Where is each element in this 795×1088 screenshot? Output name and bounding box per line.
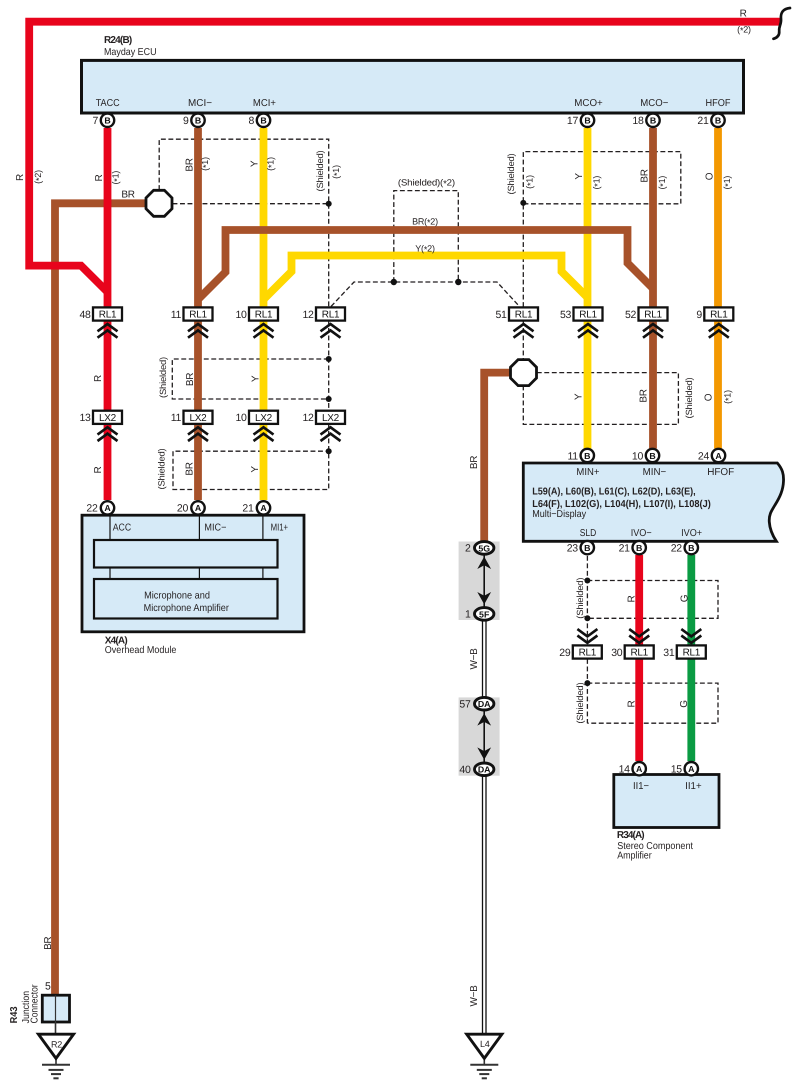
svg-text:(*1): (*1) — [200, 157, 211, 171]
svg-text:MCO+: MCO+ — [574, 98, 603, 109]
svg-text:24: 24 — [698, 450, 710, 462]
ECU pin 17 B — [581, 114, 594, 127]
wire BR from octagon J2 to 5G — [484, 373, 511, 542]
svg-text:Y: Y — [250, 160, 261, 167]
svg-text:W−B: W−B — [469, 985, 480, 1007]
chevron below RL1 12 — [321, 324, 341, 338]
svg-text:(Shielded): (Shielded) — [575, 682, 585, 723]
connector band 57DA-40DA — [459, 697, 500, 775]
dashed bus to RL1 connectors — [331, 282, 520, 307]
arrow down into 5F — [477, 592, 491, 604]
connector RL1 pin 31 — [677, 645, 706, 658]
svg-text:G: G — [679, 594, 690, 602]
shield dashed box left-lower (Shielded) — [173, 424, 329, 490]
svg-text:5G: 5G — [478, 543, 490, 553]
svg-text:10: 10 — [236, 412, 248, 424]
svg-text:40: 40 — [459, 764, 471, 776]
svg-text:22: 22 — [671, 542, 683, 554]
chevron below RL1 51 — [514, 324, 534, 338]
svg-text:5F: 5F — [479, 609, 490, 619]
connector RL1 pin 12 — [316, 307, 345, 320]
R34(A) Stereo Component Amplifier box — [614, 775, 719, 828]
svg-text:53: 53 — [560, 309, 572, 321]
arrow up into 57DA — [477, 713, 491, 725]
svg-text:(Shielded): (Shielded) — [157, 448, 167, 489]
svg-text:(Shielded): (Shielded) — [315, 150, 325, 191]
shield junction dot — [326, 448, 332, 454]
wire BR (*1) MCI- pin9 to pin20 MIC- — [194, 128, 202, 500]
svg-text:8: 8 — [248, 115, 254, 127]
svg-text:IVO−: IVO− — [631, 528, 652, 539]
svg-text:BR: BR — [469, 456, 480, 469]
X4 pin 22 A — [101, 501, 114, 514]
svg-text:R: R — [627, 595, 638, 602]
shield junction dot — [455, 279, 461, 285]
svg-text:MIN−: MIN− — [643, 467, 667, 478]
svg-text:R: R — [740, 9, 747, 20]
R43 internal wire — [55, 995, 57, 1022]
svg-text:52: 52 — [625, 309, 637, 321]
link R43 to ground R2 — [55, 1022, 57, 1035]
shield junction dot — [584, 680, 590, 686]
chevron below RL1 52 — [643, 324, 663, 338]
shield junction dot — [391, 279, 397, 285]
svg-text:Y: Y — [250, 375, 261, 382]
svg-text:(*1): (*1) — [266, 157, 277, 171]
svg-text:5: 5 — [45, 981, 51, 993]
chevron below RL1 53 — [578, 324, 598, 338]
svg-text:(*1): (*1) — [592, 176, 603, 190]
connector RL1 pin 52 — [639, 307, 668, 320]
connector RL1 pin 51 — [509, 307, 538, 320]
svg-text:Amplifier: Amplifier — [617, 850, 652, 861]
chevron below LX2 12 — [321, 427, 341, 441]
X4 inner block upper — [94, 540, 278, 568]
svg-text:DA: DA — [478, 699, 491, 709]
chevron above RL1 31 — [681, 629, 701, 643]
svg-text:Microphone Amplifier: Microphone Amplifier — [144, 603, 230, 614]
svg-text:Y(*2): Y(*2) — [415, 243, 435, 254]
connector RL1 pin 48 — [93, 307, 122, 320]
dashed link RL1 12 to LX2 12 with shield box — [172, 321, 328, 411]
svg-text:10: 10 — [632, 450, 644, 462]
svg-text:(Shielded): (Shielded) — [575, 577, 585, 618]
chevron below RL1 9 — [709, 324, 729, 338]
svg-text:(Shielded): (Shielded) — [506, 153, 516, 194]
chevron above RL1 30 — [629, 629, 649, 643]
svg-text:(Shielded): (Shielded) — [684, 377, 694, 418]
svg-text:O: O — [705, 172, 716, 180]
connector oval 40 DA — [475, 763, 494, 776]
wire Y(*2) branch — [265, 256, 588, 299]
connector RL1 pin 10 — [249, 307, 278, 320]
svg-text:R: R — [93, 375, 104, 382]
svg-text:BR: BR — [640, 169, 651, 182]
svg-text:Overhead Module: Overhead Module — [105, 645, 177, 656]
connector band 5G-5F — [459, 542, 500, 621]
svg-text:51: 51 — [496, 309, 508, 321]
svg-text:R: R — [93, 466, 104, 473]
X4 internal wire MI1+ — [262, 517, 264, 581]
chevron above RL1 29 — [577, 629, 597, 643]
arrow down into 40DA — [477, 747, 491, 759]
chevron below LX2 10 — [254, 427, 274, 441]
svg-text:14: 14 — [619, 764, 631, 776]
Multi-Display pin 21 B — [633, 541, 646, 554]
Multi-Display box — [523, 463, 783, 541]
chevron below RL1 11 — [188, 324, 208, 338]
svg-text:11: 11 — [171, 412, 182, 424]
shield dashed box right SLD upper (Shielded) — [587, 581, 718, 619]
svg-text:BR: BR — [639, 389, 650, 402]
svg-text:15: 15 — [671, 764, 683, 776]
shield junction dot — [326, 356, 332, 362]
svg-text:BR(*2): BR(*2) — [412, 217, 438, 228]
X4 pin 21 A — [257, 501, 270, 514]
svg-text:Y: Y — [250, 466, 261, 473]
svg-text:1: 1 — [465, 609, 471, 621]
shield dashed box right SLD lower (Shielded) — [587, 683, 718, 723]
connector RL1 pin 9 — [704, 307, 733, 320]
svg-text:12: 12 — [303, 309, 315, 321]
svg-text:L4: L4 — [480, 1039, 490, 1049]
R43 junction connector box — [42, 995, 69, 1022]
dashed SLD line below RL1 29 — [586, 659, 588, 723]
svg-text:R: R — [15, 174, 26, 181]
shield dashed box top-left (Shielded)(*1) — [159, 139, 329, 307]
connector LX2 pin 12 — [316, 411, 345, 424]
svg-text:23: 23 — [567, 542, 579, 554]
connector oval 5G — [475, 542, 494, 555]
svg-text:20: 20 — [177, 503, 189, 515]
shield dashed box center (Shielded)(*2) — [394, 191, 459, 282]
connector RL1 pin 11 — [184, 307, 213, 320]
connector RL1 pin 53 — [574, 307, 603, 320]
svg-text:31: 31 — [663, 647, 675, 659]
svg-text:G: G — [679, 700, 690, 708]
svg-text:MCI+: MCI+ — [253, 98, 276, 109]
svg-text:Y: Y — [574, 173, 585, 180]
svg-text:(*1): (*1) — [331, 165, 342, 179]
wire R (*2) main feed — [29, 22, 780, 292]
wire Y MCO+ pin17 to MIN+ pin11 — [584, 128, 592, 449]
X4(A) Overhead Module box — [82, 515, 304, 632]
svg-text:30: 30 — [611, 647, 623, 659]
connector RL1 pin 29 — [573, 645, 602, 658]
ECU pin 9 B — [191, 114, 204, 127]
shield junction dot — [584, 578, 590, 584]
svg-text:(*2): (*2) — [737, 25, 751, 36]
svg-text:Microphone and: Microphone and — [144, 590, 210, 601]
svg-text:12: 12 — [303, 412, 315, 424]
chevron below LX2 11 — [188, 427, 208, 441]
shield junction dot — [326, 396, 332, 402]
chevron below RL1 48 — [98, 324, 118, 338]
svg-text:Connector: Connector — [30, 984, 41, 1024]
connector oval 5F — [475, 608, 494, 621]
connector LX2 pin 10 — [249, 411, 278, 424]
dashed SLD line from pin 23 — [586, 556, 588, 645]
amplifier pin 15 A — [685, 762, 698, 775]
svg-text:22: 22 — [86, 503, 98, 515]
Multi-Display pin 10 B — [646, 449, 659, 462]
svg-text:DA: DA — [478, 765, 491, 775]
svg-text:HFOF: HFOF — [706, 98, 731, 109]
wire O HFOF pin21 to HFOF pin24 — [714, 128, 722, 449]
chevron below RL1 10 — [254, 324, 274, 338]
svg-text:II1−: II1− — [633, 781, 649, 792]
connector LX2 pin 11 — [184, 411, 213, 424]
svg-text:L59(A), L60(B), L61(C), L62(D): L59(A), L60(B), L61(C), L62(D), L63(E), — [532, 487, 696, 498]
X4 internal wire ACC — [109, 517, 111, 581]
svg-text:13: 13 — [80, 412, 92, 424]
svg-text:2: 2 — [465, 543, 471, 555]
wire W-B thin link 40DA to ground L4 — [483, 776, 487, 1035]
svg-text:R24(B): R24(B) — [104, 35, 132, 46]
svg-text:MCI−: MCI− — [188, 98, 212, 109]
wire G IVO+ pin22 to pin15 — [687, 555, 695, 761]
svg-text:Y: Y — [574, 393, 585, 400]
octagon junction J2 — [511, 360, 537, 386]
svg-text:(Shielded): (Shielded) — [158, 357, 168, 398]
ECU pin 18 B — [646, 114, 659, 127]
shield junction dot — [520, 200, 526, 206]
svg-text:(*1): (*1) — [723, 390, 734, 404]
svg-text:21: 21 — [619, 542, 631, 554]
Multi-Display pin 22 B — [685, 541, 698, 554]
svg-text:Multi−Display: Multi−Display — [532, 509, 586, 520]
svg-text:(*1): (*1) — [722, 176, 733, 190]
svg-text:9: 9 — [183, 115, 189, 127]
X4 pin 20 A — [191, 501, 204, 514]
svg-text:48: 48 — [80, 309, 92, 321]
svg-text:BR: BR — [185, 462, 196, 475]
wire R (*1) TACC pin7 to pin22 ACC — [104, 128, 112, 500]
svg-text:29: 29 — [559, 647, 571, 659]
svg-text:21: 21 — [697, 115, 709, 127]
chevron below LX2 13 — [98, 427, 118, 441]
connector oval 57 DA — [475, 697, 494, 710]
wire R IVO- pin21 to pin14 — [635, 555, 643, 761]
ground symbol L4 — [467, 1034, 502, 1078]
connector mating line 5G-5F — [483, 554, 485, 608]
svg-text:11: 11 — [567, 450, 578, 462]
wire shield dashed line from octagon J1 — [173, 203, 329, 205]
svg-text:R43: R43 — [9, 1006, 20, 1023]
svg-text:R: R — [627, 700, 638, 707]
svg-text:11: 11 — [171, 309, 182, 321]
svg-text:TACC: TACC — [96, 98, 120, 109]
svg-text:7: 7 — [92, 115, 98, 127]
svg-text:R2: R2 — [51, 1040, 62, 1050]
Multi-Display pin 11 B — [581, 449, 594, 462]
ground symbol R2 — [38, 1034, 73, 1078]
svg-text:(Shielded)(*2): (Shielded)(*2) — [398, 177, 455, 188]
svg-text:BR: BR — [185, 158, 196, 171]
svg-text:(*1): (*1) — [111, 171, 122, 185]
svg-text:57: 57 — [459, 699, 471, 711]
svg-text:BR: BR — [43, 937, 54, 950]
svg-text:(*1): (*1) — [657, 176, 668, 190]
svg-text:HFOF: HFOF — [707, 467, 734, 478]
svg-text:II1+: II1+ — [685, 781, 702, 792]
X4 inner block microphone amplifier — [94, 579, 278, 619]
octagon junction J1 — [146, 190, 172, 216]
shield dashed box top-right (Shielded)(*1) — [523, 152, 681, 307]
svg-text:(*2): (*2) — [33, 170, 44, 184]
wire Y (*1) MCI+ pin8 to pin21 MI1+ — [260, 128, 268, 500]
wire W-B thin link 5F to 57DA — [483, 620, 487, 697]
ECU box R24(B) Mayday ECU — [82, 60, 744, 113]
svg-text:W−B: W−B — [469, 648, 480, 670]
dashed link RL1 51 to octagon J2 — [522, 321, 524, 361]
svg-text:BR: BR — [185, 373, 196, 386]
connector RL1 pin 30 — [625, 645, 654, 658]
svg-text:MIN+: MIN+ — [576, 467, 599, 478]
svg-text:MIC−: MIC− — [204, 523, 226, 534]
svg-text:BR: BR — [121, 190, 134, 201]
svg-text:(*1): (*1) — [525, 175, 536, 189]
wire BR(*2) branch — [199, 230, 654, 299]
wire BR from octagon J1 to junction connector R43 — [55, 203, 147, 995]
svg-text:ACC: ACC — [113, 523, 132, 534]
svg-text:R34(A): R34(A) — [617, 830, 645, 841]
svg-text:MCO−: MCO− — [640, 98, 668, 109]
amplifier pin 14 A — [633, 762, 646, 775]
connector LX2 pin 13 — [93, 411, 122, 424]
svg-text:21: 21 — [242, 503, 254, 515]
svg-text:9: 9 — [696, 309, 702, 321]
ECU pin 21 B — [711, 114, 724, 127]
svg-text:SLD: SLD — [580, 528, 597, 539]
svg-text:18: 18 — [632, 115, 644, 127]
shield junction dot — [326, 201, 332, 207]
ECU pin 7 B — [101, 114, 114, 127]
svg-text:IVO+: IVO+ — [681, 528, 702, 539]
shield junction dot — [584, 615, 590, 621]
svg-text:R: R — [94, 174, 105, 181]
wire break symbol — [774, 8, 791, 39]
wire BR MCO- pin18 to MIN- pin10 — [649, 128, 657, 449]
ECU pin 8 B — [257, 114, 270, 127]
svg-text:17: 17 — [567, 115, 579, 127]
svg-text:10: 10 — [236, 309, 248, 321]
svg-text:Mayday ECU: Mayday ECU — [104, 47, 157, 58]
arrow up into 5G — [477, 557, 491, 569]
shield dashed box mid-right (Shielded) — [523, 373, 678, 425]
X4 internal wire MIC- — [198, 517, 200, 581]
Multi-Display pin 24 A — [712, 449, 725, 462]
svg-text:O: O — [704, 393, 715, 401]
svg-text:MI1+: MI1+ — [271, 523, 289, 534]
Multi-Display pin 23 B — [581, 541, 594, 554]
connector mating line 57DA-40DA — [483, 710, 485, 763]
